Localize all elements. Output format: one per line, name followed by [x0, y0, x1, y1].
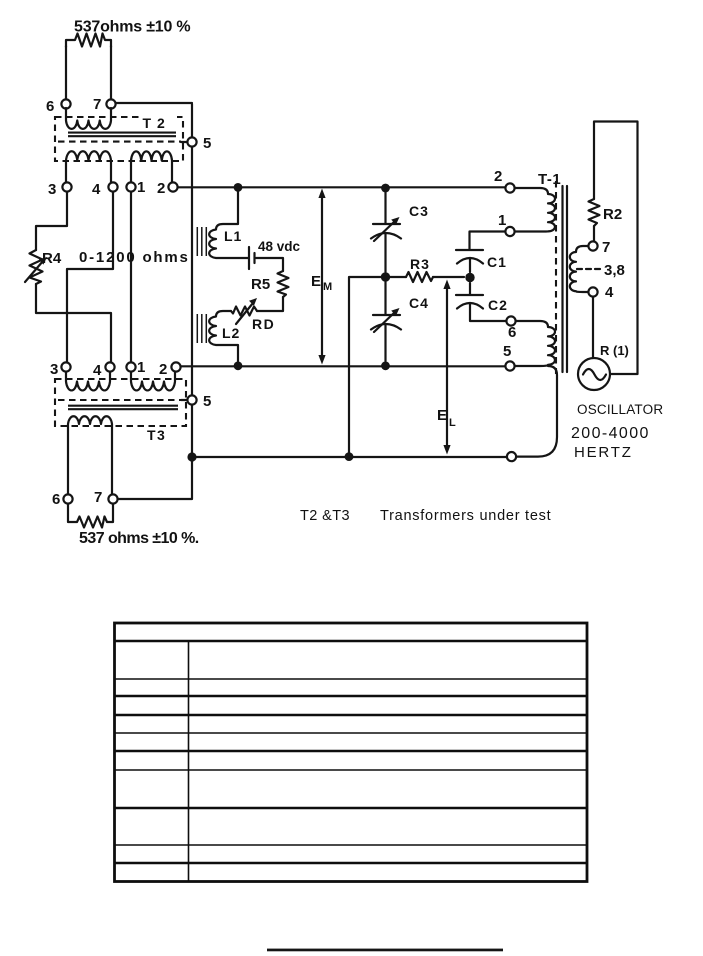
caption T2 & T3 transformers under test	[300, 508, 551, 524]
bottom rail	[192, 456, 507, 458]
pin 3 of T3	[50, 361, 71, 378]
svg-text:L: L	[449, 417, 456, 429]
svg-text:T2 &T3: T2 &T3	[300, 508, 350, 524]
pin 4 of T-1	[588, 284, 614, 301]
wire bottom rail terminal up to T-1 winding	[517, 366, 558, 457]
svg-text:R4: R4	[42, 250, 62, 267]
svg-text:5: 5	[203, 393, 211, 410]
T3 primary winding pins 6-7	[68, 416, 112, 494]
TABLE	[114, 623, 587, 882]
svg-text:537 ohms ±10 %.: 537 ohms ±10 %.	[79, 530, 199, 547]
variable resistor R4	[25, 250, 47, 284]
svg-text:4: 4	[92, 181, 101, 198]
resistor 537 ohms (bottom, across T3 pins 6-7)	[68, 504, 113, 528]
svg-text:1: 1	[137, 179, 145, 196]
wire pin 4 down to oscillator	[592, 297, 594, 358]
T-1 left winding pins 6-5	[515, 321, 555, 366]
svg-text:3,8: 3,8	[604, 262, 625, 279]
transformer T-1 label	[538, 171, 561, 188]
wire R2 top loop to oscillator right	[594, 122, 638, 375]
svg-text:RD: RD	[252, 316, 275, 332]
svg-text:6: 6	[46, 98, 54, 115]
pin 2 of T-1	[494, 168, 515, 193]
pin 4 of T3	[93, 362, 115, 379]
bottom rule	[267, 949, 503, 952]
T-1 right winding pins 7-4	[570, 246, 588, 292]
svg-text:C4: C4	[409, 295, 429, 311]
wire R2 bottom to pin 7	[593, 226, 595, 241]
T3 core solid lines	[68, 406, 178, 410]
svg-text:E: E	[311, 273, 321, 290]
pin 6 of T-1	[506, 316, 516, 341]
T3 core dashed line to pin 5	[58, 399, 188, 401]
pin 6 of T3	[52, 491, 73, 508]
T3 secondary winding pins 3-4	[66, 372, 110, 390]
variable capacitor C3	[371, 190, 429, 272]
inductor L1	[209, 189, 248, 258]
pin 4 of T2	[92, 181, 118, 198]
pin 7 of T3	[94, 489, 118, 506]
wire resistor left lead down to pin 6	[65, 46, 67, 99]
wire R4 bottom to pin4 T3	[36, 284, 111, 362]
label L2	[222, 325, 240, 341]
node dot bottom rail left	[187, 452, 196, 461]
label OSCILLATOR	[577, 402, 663, 417]
svg-text:5: 5	[503, 343, 511, 360]
svg-text:L2: L2	[222, 325, 240, 341]
pin 2 of T3	[159, 361, 181, 378]
T2 core dashed line to pin 5	[58, 141, 187, 143]
resistor 537 ohms (top, across T2 pins 6-7)	[66, 34, 111, 48]
label R4 0-1200 ohms	[42, 249, 190, 267]
node dot C3/C4/R3	[381, 272, 390, 281]
pin 1 of T-1	[498, 212, 515, 236]
voltmeter span E_L arrow	[437, 280, 456, 455]
T-1 core solid lines	[563, 186, 568, 372]
L2 core lines	[197, 314, 206, 343]
pin 1 of T2	[126, 179, 145, 196]
svg-text:1: 1	[137, 359, 145, 376]
svg-text:OSCILLATOR: OSCILLATOR	[577, 402, 663, 417]
svg-text:Transformers under test: Transformers under test	[380, 508, 551, 524]
svg-text:E: E	[437, 407, 447, 424]
node dot C1/C2/R3	[465, 273, 474, 282]
svg-text:M: M	[323, 281, 332, 293]
svg-text:1: 1	[498, 212, 506, 229]
battery 48 vdc	[249, 239, 301, 269]
svg-text:T-1: T-1	[538, 171, 561, 188]
wire resistor right lead down to pin 7	[110, 46, 112, 99]
T-1 left winding pins 2-1	[515, 188, 555, 232]
wire pin7 right then down to T2 pin5 and on to T3 pin5 and bottom rail	[116, 103, 192, 499]
T3 label	[147, 427, 166, 443]
svg-text:3: 3	[48, 181, 56, 198]
T2 primary winding pins 6-7	[66, 108, 111, 129]
svg-text:R5: R5	[251, 276, 270, 293]
voltmeter span E_M arrow	[311, 189, 332, 365]
svg-text:6: 6	[508, 324, 516, 341]
T3 secondary winding pins 1-2	[131, 372, 175, 390]
svg-text:L1: L1	[224, 228, 242, 244]
label 200-4000	[571, 425, 650, 442]
node dot mid rail / L2	[234, 361, 243, 370]
svg-text:2: 2	[159, 361, 167, 378]
node dot top rail / C3	[381, 184, 390, 193]
pin 7 of T2	[93, 96, 116, 113]
svg-text:7: 7	[602, 239, 610, 256]
capacitor C1	[456, 232, 507, 273]
svg-text:HERTZ: HERTZ	[574, 444, 633, 461]
svg-text:7: 7	[93, 96, 101, 113]
T2 secondary winding pins 1-2	[131, 151, 172, 182]
label HERTZ	[574, 444, 633, 461]
T2 secondary winding pins 3-4	[66, 151, 111, 182]
svg-text:R2: R2	[603, 206, 622, 223]
wire pin4 T2 to pin3 T3	[67, 192, 113, 362]
resistor R2	[589, 199, 623, 226]
pin 5 of T3	[187, 393, 211, 410]
node dot mid rail / C4	[381, 361, 390, 370]
pin 1 of T3	[126, 359, 145, 376]
svg-text:0-1200 ohms: 0-1200 ohms	[79, 249, 190, 266]
mid rail from pin2 T3 to T-1 pin 5	[181, 365, 505, 367]
svg-text:4: 4	[605, 284, 614, 301]
resistor R3	[390, 256, 464, 282]
wire battery to R5	[256, 258, 283, 271]
transformer T3 dashed box	[55, 379, 186, 426]
pin 5 of T2	[187, 135, 211, 152]
svg-text:200-4000: 200-4000	[571, 425, 650, 442]
node dot top rail / L1	[234, 183, 243, 192]
wire R5 bottom to RD	[257, 297, 283, 311]
svg-text:C1: C1	[487, 254, 507, 270]
svg-text:T3: T3	[147, 427, 166, 443]
svg-text:2: 2	[494, 168, 502, 185]
node dot bottom rail / R3 drop	[345, 452, 354, 461]
resistor R5	[251, 271, 289, 297]
pin 5 of T-1	[503, 343, 515, 371]
terminal on bottom rail	[507, 452, 516, 461]
svg-text:5: 5	[203, 135, 211, 152]
svg-text:4: 4	[93, 362, 102, 379]
svg-text:48 vdc: 48 vdc	[258, 239, 301, 254]
wire pin3 T2 to R4 top	[36, 192, 67, 250]
T-1 core dashed line	[555, 181, 557, 374]
variable capacitor C4	[371, 282, 429, 361]
svg-text:3: 3	[50, 361, 58, 378]
value label 537 ohms +/-10% (bottom)	[79, 530, 199, 547]
svg-text:2: 2	[157, 180, 165, 197]
svg-text:T2: T2	[143, 115, 171, 131]
pin 2 of T2	[157, 180, 178, 197]
wire R3 node to left drop	[349, 277, 385, 456]
value label 537ohms +/-10% (top)	[74, 19, 190, 36]
svg-text:C2: C2	[488, 297, 508, 313]
oscillator R(1)	[578, 343, 629, 390]
top rail from pin2 T2 to T-1 pin 2	[178, 186, 505, 188]
pin 7 of T-1	[588, 239, 610, 256]
svg-text:6: 6	[52, 491, 60, 508]
svg-text:7: 7	[94, 489, 102, 506]
capacitor C2	[456, 283, 508, 321]
transformer T2 dashed box	[55, 117, 183, 161]
svg-text:R3: R3	[410, 256, 430, 272]
svg-text:C3: C3	[409, 203, 429, 219]
inductor L2	[209, 311, 238, 361]
variable resistor RD	[231, 298, 275, 332]
svg-text:537ohms ±10 %: 537ohms ±10 %	[74, 19, 190, 36]
pin 6 of T2	[46, 98, 71, 115]
T2 label	[139, 112, 177, 131]
wire pin1 T2 to pin1 T3	[130, 192, 132, 362]
pin 3 of T2	[48, 181, 72, 198]
label L1	[224, 228, 242, 244]
T2 core solid lines	[68, 133, 176, 137]
tap 3,8 dashed lead and label	[577, 262, 625, 279]
L1 core lines	[197, 227, 206, 256]
svg-text:R (1): R (1)	[600, 343, 629, 358]
